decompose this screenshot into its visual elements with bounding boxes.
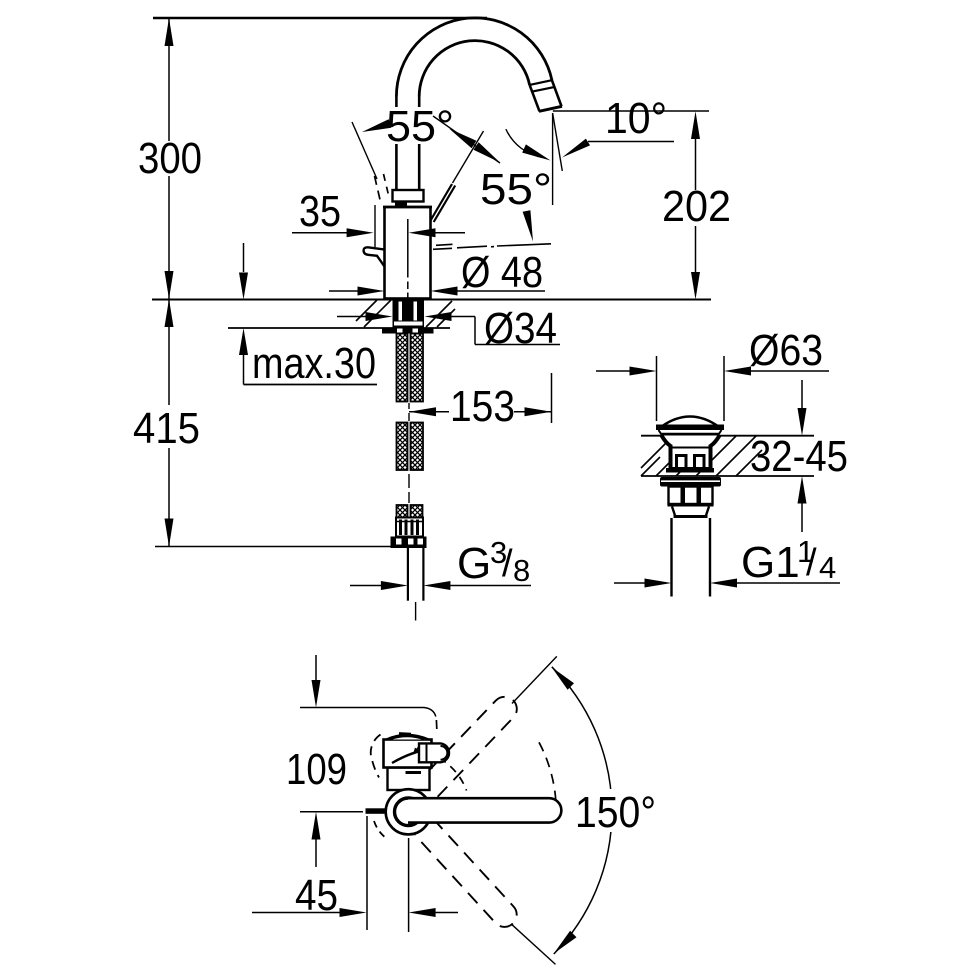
109 top reference line bbox=[300, 707, 424, 709]
svg-text:10°: 10° bbox=[605, 94, 667, 143]
arrow right-end 153 bbox=[525, 407, 552, 416]
arrow left d48 bbox=[431, 287, 458, 296]
rounded corner of reference bbox=[424, 708, 436, 717]
locknut bbox=[669, 487, 713, 505]
arrow left d63 bbox=[724, 367, 751, 376]
lower dashed spout position bbox=[415, 819, 522, 932]
nut white window left bbox=[397, 329, 403, 333]
svg-text:150°: 150° bbox=[575, 788, 656, 837]
dashed ghost arc lower left of circle bbox=[374, 821, 387, 839]
svg-text:32-45: 32-45 bbox=[750, 432, 848, 481]
arrow down 109 bbox=[312, 680, 321, 708]
dashed ghost arc left of cartridge bbox=[371, 735, 381, 778]
arrow up 109 bbox=[312, 812, 321, 840]
svg-text:G: G bbox=[457, 539, 491, 588]
arrow right 35 bbox=[347, 228, 374, 237]
threaded shank block bbox=[393, 300, 425, 328]
drain deck bottom line bbox=[641, 475, 814, 477]
arrow up 32-45 bbox=[798, 476, 807, 504]
arrow down 32-45 bbox=[798, 408, 807, 436]
arrow down max.30 top bbox=[239, 273, 248, 300]
dimension 35 bbox=[292, 232, 347, 234]
arrow up 202 bbox=[691, 111, 700, 139]
drain deck top line bbox=[641, 435, 814, 437]
nut white window right bbox=[413, 329, 419, 333]
svg-text:45: 45 bbox=[295, 871, 338, 920]
flexible hose section 1 right bbox=[411, 334, 424, 402]
pivot outer circle bbox=[386, 789, 431, 834]
drain deck hatching bbox=[641, 436, 762, 476]
svg-text:202: 202 bbox=[662, 182, 731, 231]
arrow down-right on cross line bbox=[474, 142, 501, 162]
arrow up 415 top bbox=[165, 299, 174, 327]
150 degree arc bbox=[552, 667, 612, 954]
svg-text:55°: 55° bbox=[480, 165, 552, 214]
overflow window left bbox=[677, 456, 687, 469]
svg-text:35: 35 bbox=[299, 187, 341, 236]
dimension line 300 bbox=[168, 18, 170, 299]
countertop deck line bbox=[152, 299, 711, 301]
knob inner cap arc bbox=[441, 746, 448, 760]
label 55 deg (lever swing, upper left) bbox=[383, 107, 457, 144]
extension line for 35 dimension bbox=[374, 205, 376, 247]
dimension diameter 34 bbox=[337, 316, 366, 318]
connector nut bbox=[391, 537, 427, 549]
arrow left 35 bbox=[409, 228, 436, 237]
arrow right 45 bbox=[340, 908, 367, 917]
arrow up-left on cross line bbox=[449, 129, 476, 149]
109 bottom reference line bbox=[300, 811, 363, 813]
drain body funnel bbox=[662, 436, 720, 470]
svg-text:Ø34: Ø34 bbox=[484, 304, 557, 353]
flange white line bbox=[661, 480, 720, 482]
dashed swing arc large bbox=[539, 742, 556, 799]
svg-text:G1: G1 bbox=[741, 538, 800, 587]
drain tail pipe bbox=[672, 518, 711, 597]
arrow left d34 bbox=[425, 312, 452, 321]
label max.30 with underline bbox=[244, 384, 378, 386]
svg-text:max.30: max.30 bbox=[252, 339, 376, 388]
arrow right G114 bbox=[645, 579, 672, 588]
centerline in hose break bbox=[408, 403, 410, 421]
extension line 153 right bbox=[551, 373, 553, 423]
body top edge bbox=[383, 206, 432, 209]
deck hatching left of shank bbox=[356, 300, 391, 327]
extension line 45 left bbox=[366, 816, 368, 930]
lever knob top view bbox=[419, 743, 449, 762]
10 deg leader arrow bbox=[562, 139, 590, 158]
arrow left G114 bbox=[710, 579, 737, 588]
shank white band bbox=[394, 322, 423, 326]
locknut bottom bar bbox=[668, 503, 714, 507]
faucet body bbox=[385, 207, 431, 299]
flexible hose section 2 right bbox=[411, 423, 424, 471]
dimension max.30 bbox=[243, 243, 245, 385]
bottom reference line of 415 bbox=[155, 546, 391, 548]
arrow down 300 bottom bbox=[165, 271, 174, 299]
spout nozzle joint lines bbox=[530, 80, 552, 85]
arrow left 45 bbox=[409, 908, 436, 917]
arrow at left lever line bbox=[362, 119, 391, 132]
mounting nut bbox=[382, 328, 434, 334]
d34 stepped leader bbox=[451, 317, 560, 345]
arrow down 202 bbox=[691, 272, 700, 300]
svg-text:/: / bbox=[502, 543, 513, 585]
150 arc extension line bottom bbox=[511, 924, 556, 965]
svg-text:Ø63: Ø63 bbox=[749, 326, 823, 375]
leader line of 55 left lever bbox=[352, 122, 377, 179]
flexible hose section 2 left bbox=[397, 423, 408, 471]
body centerline bbox=[407, 219, 409, 299]
extension lines d63 bbox=[657, 356, 725, 421]
arrow right d48 bbox=[358, 287, 385, 296]
arrow pointing to lever rest line bbox=[523, 210, 533, 241]
flange washer bbox=[660, 477, 721, 487]
dimension G3/8 bbox=[350, 585, 382, 587]
cap skirt bbox=[659, 430, 722, 435]
pivot inner ring bbox=[395, 798, 423, 826]
hose end braid caps bbox=[397, 505, 408, 518]
cartridge arched top bbox=[387, 735, 429, 740]
shank white slot right bbox=[414, 302, 418, 321]
arc of tip 55 angle bbox=[506, 129, 543, 157]
dimension diameter 48 bbox=[329, 290, 358, 292]
top notch line bbox=[399, 732, 411, 735]
dashes continuing corner bbox=[435, 720, 437, 729]
interior arrow mark bbox=[415, 744, 422, 753]
cartridge interior arc bbox=[392, 749, 430, 763]
knob divider line bbox=[426, 743, 428, 762]
spout outer arc bbox=[396, 18, 552, 97]
body dark bar bbox=[406, 771, 422, 774]
upper dashed spout position bbox=[413, 692, 521, 804]
spout riser pipe bbox=[396, 97, 419, 191]
lever rest position line bbox=[433, 244, 551, 250]
collar base black block bbox=[395, 201, 407, 207]
svg-text:300: 300 bbox=[138, 134, 202, 183]
arrow top of 150 arc bbox=[552, 667, 575, 690]
extension line 45 right (pivot centerline) bbox=[408, 838, 410, 932]
dashed swing arc small bbox=[439, 758, 467, 791]
svg-text:55°: 55° bbox=[386, 102, 454, 151]
arched top inner line bbox=[390, 737, 424, 740]
cap plate bbox=[656, 425, 724, 431]
10 deg leader line bbox=[588, 141, 674, 143]
side tab bbox=[366, 808, 386, 814]
cross line of lever angle dimension bbox=[433, 116, 500, 163]
202 top reference line bbox=[553, 110, 709, 112]
dimension line 415 bbox=[168, 299, 170, 547]
side lever handle (solid, left) bbox=[364, 247, 385, 267]
svg-text:4: 4 bbox=[819, 550, 836, 585]
flexible hose section 1 left bbox=[397, 334, 408, 402]
hose end fittings bbox=[396, 518, 423, 537]
arrow down 415 bottom bbox=[165, 519, 174, 547]
lever axis extension line bbox=[453, 131, 484, 183]
arrow up 300 top bbox=[165, 18, 174, 46]
10 deg vertical reference line bbox=[552, 113, 554, 205]
spout nozzle face bbox=[539, 106, 562, 111]
tailpiece taper bbox=[672, 507, 709, 518]
pop-up cap dome bbox=[662, 417, 719, 427]
dimension 109 bbox=[315, 655, 317, 867]
10 deg slanted stream line bbox=[553, 113, 563, 171]
shank white slot left bbox=[399, 302, 403, 321]
arrow at end of tip 55 arc bbox=[522, 144, 550, 160]
arrow left-end 153 bbox=[409, 407, 436, 416]
dimension 32-45 bbox=[801, 380, 803, 532]
arrow right d63 bbox=[630, 367, 657, 376]
arrow right G38 bbox=[381, 581, 408, 590]
150 arc extension line top bbox=[512, 656, 557, 703]
svg-text:8: 8 bbox=[513, 553, 530, 588]
dimension 45 bbox=[252, 912, 340, 914]
dashed lever position (left tilted) bbox=[375, 174, 390, 204]
body bottom bar bbox=[666, 468, 714, 473]
G3/8 threaded tail pipe bbox=[408, 548, 424, 601]
overflow window right bbox=[695, 456, 705, 469]
solid spout top view bbox=[408, 798, 561, 822]
arrow left G38 bbox=[423, 581, 450, 590]
dimension line 202 bbox=[695, 123, 697, 285]
label 150 deg bbox=[570, 789, 660, 832]
funnel interior line bbox=[671, 447, 710, 449]
dimension d63 bbox=[596, 370, 630, 372]
dimension 153 bbox=[409, 411, 449, 413]
spout nozzle sides bbox=[552, 80, 562, 106]
tail pipe centerline bbox=[415, 602, 417, 621]
raised lever (solid double line) bbox=[431, 184, 453, 221]
body top view bbox=[388, 768, 430, 791]
spout inner arc bbox=[419, 41, 529, 97]
cartridge box bbox=[384, 740, 432, 768]
deck bottom line (max.30 reference) bbox=[228, 327, 450, 329]
deck hatching right of shank bbox=[426, 301, 455, 327]
svg-text:415: 415 bbox=[133, 404, 200, 453]
locknut slots bbox=[681, 487, 686, 503]
centerline below hoses bbox=[408, 474, 410, 503]
top extension line (spout max height) bbox=[153, 17, 487, 20]
arrow right d34 bbox=[366, 312, 393, 321]
arrow up max.30 bottom bbox=[239, 328, 248, 355]
svg-text:109: 109 bbox=[286, 745, 347, 794]
spout collar bbox=[393, 190, 424, 202]
svg-text:Ø 48: Ø 48 bbox=[461, 248, 543, 297]
nut windows bbox=[396, 539, 423, 545]
dimension G1 1/4 bbox=[614, 582, 645, 584]
svg-text:/: / bbox=[806, 542, 817, 584]
arrow bottom of 150 arc bbox=[554, 931, 577, 954]
svg-text:153: 153 bbox=[450, 382, 515, 431]
